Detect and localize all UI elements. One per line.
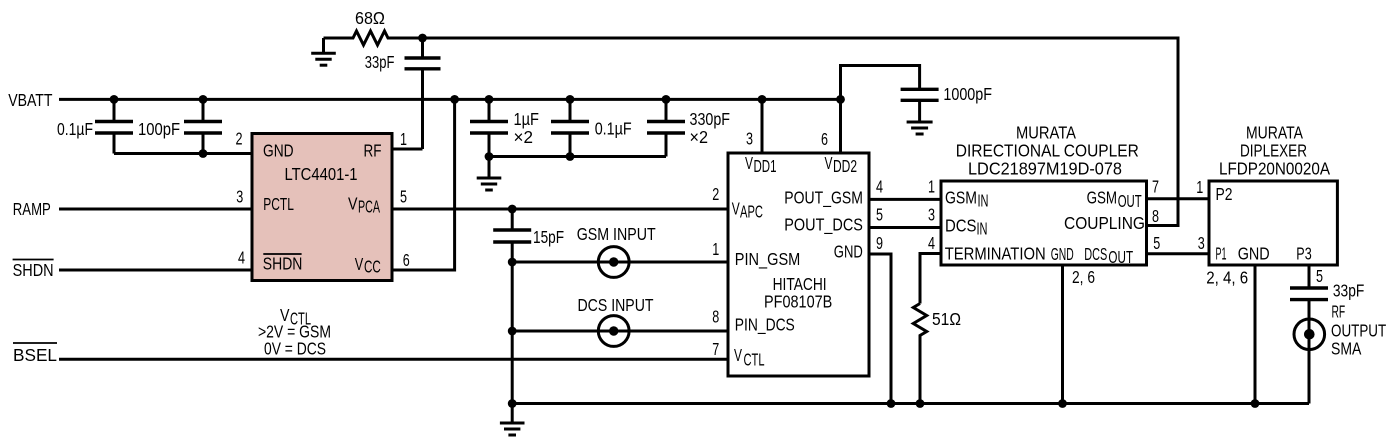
value label 0.1uF — [57, 119, 93, 139]
pin POUT_GSM label — [784, 188, 863, 209]
svg-text:P2: P2 — [1216, 184, 1233, 204]
svg-text:RF: RF — [364, 141, 382, 161]
junction VAPC branch — [508, 205, 517, 214]
svg-text:51Ω: 51Ω — [932, 309, 961, 329]
svg-text:PF08107B: PF08107B — [764, 292, 832, 312]
svg-text:4: 4 — [238, 248, 245, 268]
wire ground bus — [512, 402, 1309, 405]
pin VPCA label — [348, 194, 380, 217]
value label 68Ω — [355, 8, 385, 28]
coupler U3 box — [941, 181, 1147, 265]
junction bus x diplexer GND — [1251, 399, 1260, 408]
junction 1uF bottom — [485, 152, 494, 161]
pin number 8 — [1152, 206, 1159, 226]
svg-text:OUT: OUT — [1118, 191, 1142, 211]
pin number 5 — [876, 205, 883, 225]
wire P3 down through SMA — [1308, 265, 1311, 404]
capacitor 15pF — [493, 230, 531, 404]
wire VDD1 riser — [761, 99, 764, 153]
svg-text:SMA: SMA — [1331, 339, 1362, 359]
junction bus left end — [508, 399, 517, 408]
svg-text:2, 6: 2, 6 — [1072, 267, 1095, 287]
junction 0.1uF bottom — [566, 152, 575, 161]
svg-text:7: 7 — [712, 339, 719, 359]
wire VDD2 riser to 1000pF — [841, 66, 920, 154]
svg-text:9: 9 — [876, 233, 883, 253]
pin GND label — [263, 141, 294, 161]
wire VAPC vertical branch — [511, 209, 514, 230]
svg-text:CC: CC — [364, 257, 381, 277]
svg-text:5: 5 — [1316, 266, 1323, 286]
pin number 8 — [712, 307, 719, 327]
svg-text:DCS: DCS — [945, 215, 977, 235]
capacitor 330pF x2 — [647, 99, 685, 156]
pin RF label — [364, 141, 382, 161]
pin VAPC label — [732, 199, 763, 222]
pin number 3 — [236, 187, 243, 207]
svg-text:DCS INPUT: DCS INPUT — [578, 295, 654, 315]
wire SHDN to pin 4 — [59, 269, 252, 272]
pin COUPLING label — [1064, 213, 1145, 233]
svg-text:0.1µF: 0.1µF — [595, 119, 632, 139]
svg-text:V: V — [745, 153, 753, 173]
wire coupler GND to bus — [1061, 265, 1064, 404]
junction GSM input branch — [508, 258, 517, 267]
svg-text:6: 6 — [403, 250, 410, 270]
value label 15pF — [533, 227, 564, 247]
pin number 6 — [821, 129, 828, 149]
svg-text:DD2: DD2 — [833, 156, 857, 176]
pin GND label (coupler) — [1051, 244, 1074, 264]
node BSEL label (overlined) — [13, 343, 57, 365]
svg-text:OUTPUT: OUTPUT — [1331, 320, 1386, 340]
amplifier U2 HITACHI PF08107B — [728, 153, 869, 376]
svg-text:100pF: 100pF — [138, 119, 180, 139]
svg-text:5: 5 — [1153, 233, 1160, 253]
pin number 3 — [746, 128, 753, 148]
svg-text:8: 8 — [1152, 206, 1159, 226]
pin number 4 — [876, 177, 883, 197]
coupler U3 header MURATA DIRECTIONAL COUPLER LDC21897M19D-078 — [956, 123, 1139, 179]
label RF OUTPUT SMA — [1331, 301, 1386, 358]
pin P2 label — [1216, 184, 1233, 204]
svg-text:V: V — [734, 345, 742, 365]
svg-text:4: 4 — [928, 233, 935, 253]
svg-text:GND: GND — [834, 242, 863, 262]
svg-text:CTL: CTL — [744, 350, 765, 370]
resistor 51Ω — [913, 304, 926, 404]
svg-text:PIN_DCS: PIN_DCS — [735, 315, 795, 336]
junction VBATT x 1uF — [485, 95, 494, 104]
value label 51Ω — [932, 309, 961, 329]
svg-text:GSM: GSM — [945, 188, 977, 208]
svg-text:330pF: 330pF — [690, 109, 731, 129]
wire POUT_GSM to GSMIN — [869, 198, 941, 201]
pin GND label — [834, 242, 863, 262]
diplexer U4 box — [1209, 181, 1337, 265]
pin PIN_DCS label — [735, 315, 795, 336]
wire caps to LTC4401 GND pin 2 — [114, 152, 252, 155]
svg-text:4: 4 — [876, 177, 883, 197]
svg-text:0.1µF: 0.1µF — [57, 119, 93, 139]
svg-text:V: V — [348, 194, 358, 214]
svg-text:1: 1 — [400, 129, 407, 149]
svg-text:5: 5 — [876, 205, 883, 225]
junction top node — [418, 34, 427, 43]
wire bypass caps common — [489, 155, 666, 158]
svg-text:1: 1 — [928, 177, 935, 197]
pin P1 label — [1216, 244, 1227, 264]
ground (68 ohm) — [311, 38, 336, 65]
junction bus x GND9 — [887, 399, 896, 408]
junction VBATT x VCC riser — [450, 95, 459, 104]
wire diplexer GND to bus — [1254, 265, 1257, 404]
svg-text:POUT_DCS: POUT_DCS — [784, 215, 863, 236]
svg-text:RAMP: RAMP — [13, 199, 51, 219]
value label 330pF x2 — [690, 109, 731, 147]
capacitor 1000pF — [901, 89, 939, 122]
pin DCSOUT label — [1084, 244, 1133, 267]
svg-text:×2: ×2 — [514, 127, 534, 147]
svg-text:APC: APC — [740, 202, 763, 222]
pin number 5 — [1153, 233, 1160, 253]
junction 100pF bottom — [199, 149, 208, 158]
junction DCS input branch — [508, 327, 517, 336]
pin GSMOUT label — [1087, 188, 1142, 212]
svg-text:7: 7 — [1152, 177, 1159, 197]
svg-text:3: 3 — [746, 128, 753, 148]
pin VDD1 label — [745, 153, 777, 176]
label GSM INPUT — [577, 224, 656, 244]
svg-text:GND: GND — [1051, 244, 1074, 264]
pin DCSIN label — [945, 215, 988, 238]
svg-text:LFDP20N0020A: LFDP20N0020A — [1219, 158, 1330, 178]
pin label 2, 6 — [1072, 267, 1095, 287]
svg-text:1µF: 1µF — [514, 109, 540, 129]
svg-text:POUT_GSM: POUT_GSM — [784, 188, 863, 209]
svg-text:DD1: DD1 — [754, 156, 777, 176]
svg-text:1000pF: 1000pF — [943, 84, 992, 104]
pin VDD2 label — [825, 153, 858, 176]
pin number 1 — [400, 129, 407, 149]
svg-text:LDC21897M19D-078: LDC21897M19D-078 — [968, 158, 1122, 178]
svg-text:IN: IN — [977, 219, 988, 239]
svg-text:LTC4401-1: LTC4401-1 — [285, 164, 358, 184]
pin POUT_DCS label — [784, 215, 863, 236]
svg-text:3: 3 — [1198, 233, 1205, 253]
svg-text:P3: P3 — [1296, 244, 1311, 264]
svg-text:COUPLING: COUPLING — [1064, 213, 1145, 233]
connector DCS input — [512, 316, 728, 347]
wire top net to coupler COUPLING pin 8 — [423, 38, 1179, 226]
pin GND label (diplexer) — [1238, 244, 1270, 264]
wire TERMINATION lead — [920, 254, 941, 304]
svg-text:2: 2 — [236, 128, 243, 148]
op-amp U1 LTC4401-1 — [252, 134, 392, 281]
pin number 2 — [236, 128, 243, 148]
node VCTL annotation — [258, 305, 331, 359]
junction VBATT x VDD1 — [758, 95, 767, 104]
wire RAMP to PCTL pin 3 — [59, 208, 252, 211]
svg-text:BSEL: BSEL — [13, 345, 57, 365]
svg-text:P1: P1 — [1216, 244, 1227, 264]
svg-text:3: 3 — [928, 205, 935, 225]
junction VBATT x 330pF — [662, 95, 671, 104]
wire GSMOUT to P2 — [1147, 197, 1210, 200]
pin PIN_GSM label — [735, 249, 801, 270]
svg-text:VBATT: VBATT — [8, 90, 53, 110]
svg-text:OUT: OUT — [1108, 247, 1133, 267]
wire DCSOUT to P1 — [1147, 252, 1210, 255]
label DCS INPUT — [578, 295, 654, 315]
svg-text:1: 1 — [1196, 177, 1203, 197]
svg-text:2: 2 — [712, 184, 719, 204]
wire POUT_DCS to DCSIN — [869, 226, 941, 229]
svg-text:GND: GND — [1238, 244, 1270, 264]
value label 33pF — [1333, 281, 1364, 301]
capacitor 100pF — [184, 99, 222, 153]
junction VBATT x VDD2 — [836, 95, 845, 104]
pin label 2, 4, 6 — [1206, 268, 1248, 288]
svg-text:IN: IN — [978, 191, 989, 211]
svg-text:3: 3 — [236, 187, 243, 207]
svg-text:6: 6 — [821, 129, 828, 149]
node RAMP label — [13, 199, 51, 219]
svg-text:×2: ×2 — [690, 127, 709, 147]
pin number 6 — [403, 250, 410, 270]
connector GSM input — [512, 247, 728, 278]
svg-text:SHDN: SHDN — [13, 260, 54, 280]
pin number 9 — [876, 233, 883, 253]
node SHDN label (overlined) — [13, 260, 54, 281]
svg-text:33pF: 33pF — [1333, 281, 1364, 301]
svg-text:V: V — [732, 199, 740, 219]
value label 0.1uF — [595, 119, 632, 139]
wire GND pin 9 to bus — [869, 254, 891, 404]
svg-text:GSM INPUT: GSM INPUT — [577, 224, 656, 244]
junction bus x 51ohm — [916, 399, 925, 408]
pin P3 label — [1296, 244, 1311, 264]
wire VCC pin 6 up to VBATT — [392, 99, 455, 270]
svg-text:2, 4, 6: 2, 4, 6 — [1206, 268, 1248, 288]
svg-text:PCTL: PCTL — [263, 194, 294, 214]
node VBATT label — [8, 90, 53, 110]
resistor 68Ω — [324, 31, 423, 45]
pin number 1 (diplexer P2) — [1196, 177, 1203, 197]
pin VCC label — [355, 254, 381, 277]
pin VCTL label — [734, 345, 765, 370]
capacitor 1uF x2 — [470, 99, 508, 156]
value label 1uF x2 — [514, 109, 540, 147]
svg-text:GND: GND — [263, 141, 294, 161]
svg-text:0V = DCS: 0V = DCS — [264, 339, 326, 359]
svg-text:5: 5 — [400, 187, 407, 207]
capacitor 0.1uF (left) — [95, 99, 133, 153]
svg-text:V: V — [825, 153, 833, 173]
pin GSMIN label — [945, 188, 989, 211]
pin number 5 (P3) — [1316, 266, 1323, 286]
svg-text:MURATA: MURATA — [1246, 123, 1303, 143]
svg-text:RF: RF — [1332, 301, 1346, 321]
capacitor 0.1uF (mid) — [551, 99, 589, 156]
junction VBATT x 0.1uF — [110, 95, 119, 104]
pin number 2 — [712, 184, 719, 204]
svg-text:DCS: DCS — [1084, 244, 1107, 264]
pin number 7 — [712, 339, 719, 359]
pin PCTL label — [263, 194, 294, 214]
svg-text:33pF: 33pF — [365, 52, 395, 72]
svg-text:PCA: PCA — [358, 197, 380, 217]
ground (1000pF) — [907, 122, 933, 134]
pin number 1 — [712, 239, 719, 259]
wire VPCA pin 5 to Hitachi VAPC — [392, 208, 728, 211]
pin number 7 — [1152, 177, 1159, 197]
pin number 4 — [238, 248, 245, 268]
pin number 3 (diplexer P1) — [1198, 233, 1205, 253]
junction VBATT x 100pF — [199, 95, 208, 104]
junction VBATT x 0.1uF — [566, 95, 575, 104]
ground (bypass caps) — [477, 157, 502, 191]
pin SHDN label (overlined) — [263, 254, 303, 274]
connector RF OUTPUT SMA — [1294, 319, 1325, 350]
wire BSEL to Hitachi VCTL pin 7 — [59, 358, 728, 361]
diplexer U4 header MURATA DIPLEXER LFDP20N0020A — [1219, 123, 1330, 179]
svg-text:V: V — [355, 254, 364, 274]
ground (input bus) — [500, 404, 525, 436]
pin number 5 — [400, 187, 407, 207]
pin TERMINATION label — [945, 244, 1046, 264]
pin number 1 (coupler GSMIN) — [928, 177, 935, 197]
svg-text:TERMINATION: TERMINATION — [945, 244, 1046, 264]
capacitor 33pF (output) — [1290, 288, 1328, 300]
svg-text:15pF: 15pF — [533, 227, 564, 247]
svg-text:SHDN: SHDN — [263, 254, 303, 274]
wire RF pin 1 to 33pF — [392, 148, 423, 151]
svg-text:68Ω: 68Ω — [355, 8, 385, 28]
svg-text:PIN_GSM: PIN_GSM — [735, 249, 801, 270]
junction bus x coupler GND — [1058, 399, 1067, 408]
value label 100pF — [138, 119, 180, 139]
svg-text:GSM: GSM — [1087, 188, 1118, 208]
capacitor 33pF (RF) — [405, 38, 441, 149]
wire VBATT rail — [59, 98, 841, 101]
pin number 4 (coupler TERMINATION) — [928, 233, 935, 253]
svg-text:1: 1 — [712, 239, 719, 259]
svg-text:8: 8 — [712, 307, 719, 327]
value label 33pF — [365, 52, 395, 72]
pin number 3 (coupler DCSIN) — [928, 205, 935, 225]
value label 1000pF — [943, 84, 992, 104]
